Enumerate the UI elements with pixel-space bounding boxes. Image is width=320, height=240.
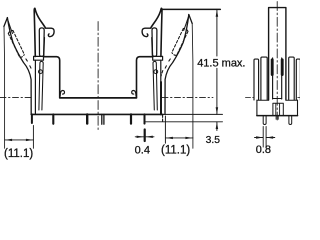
svg-text:(11.1): (11.1) [161, 144, 190, 156]
pin 6 [144, 114, 146, 123]
pin 2 [52, 114, 54, 123]
center notch [273, 103, 283, 115]
center line main view [97, 22, 99, 132]
0.8 dim arrows outside [255, 137, 275, 139]
fork cross bar [273, 98, 282, 100]
phantom lever right (released position) [161, 15, 193, 149]
left inner column [261, 57, 267, 100]
0.4 extension lines [144, 130, 146, 142]
base bottom extension to 3.5 dim [163, 113, 223, 115]
right outer column [296, 59, 300, 100]
pin 3 [86, 114, 88, 123]
end view center line [276, 2, 278, 121]
pin 1 [31, 114, 33, 123]
left lever assembly [34, 8, 65, 114]
41.5 dimension line [216, 9, 218, 114]
phantom left curve to base edge [7, 18, 31, 115]
phantom right inner tip line [184, 18, 189, 31]
end view lever rectangle [269, 8, 286, 100]
svg-text:0.4: 0.4 [135, 145, 150, 157]
hidden pin dashed [162, 115, 164, 121]
mid (11.1) dim line [165, 137, 193, 139]
right wall darkening [160, 82, 162, 114]
base bottom line [31, 113, 163, 115]
end view pin left [263, 116, 266, 125]
phantom left dashed slot [8, 30, 32, 69]
phantom lever left (released position) [4, 18, 32, 149]
phantom right edge / dim extension line [191, 24, 194, 149]
center stub [276, 116, 278, 120]
41.5 max top extension line [161, 8, 220, 10]
svg-text:41.5 max.: 41.5 max. [197, 57, 245, 69]
inner fork lines [273, 58, 282, 99]
left (11.1) dim line [5, 139, 34, 141]
phantom right curve to base edge [165, 15, 189, 115]
fork bump right [281, 60, 284, 75]
svg-text:3.5: 3.5 [206, 135, 221, 146]
dip floor between pedestals [60, 97, 137, 99]
end view horizontal dash line [246, 97, 301, 99]
0.8 extension lines [263, 127, 266, 148]
phantom right tip edge [189, 15, 192, 24]
end view base [257, 100, 298, 115]
right inner column [289, 57, 295, 100]
svg-text:(11.1): (11.1) [4, 148, 33, 160]
horizontal dash line right [162, 96, 213, 98]
end view pin right [289, 116, 292, 125]
phantom left edge / dim extension line [3, 27, 6, 149]
horizontal dash line left [0, 96, 32, 98]
pin 5 [130, 114, 132, 123]
svg-text:0.8: 0.8 [256, 144, 271, 156]
0.4 dim arrows outside [135, 136, 154, 138]
pin 4 [102, 114, 104, 124]
3.5 tail and up arrow [216, 122, 218, 131]
phantom left tip edge [4, 18, 8, 27]
right lever assembly (mirrored) [132, 8, 163, 114]
left (11.1) extension lines [32, 126, 34, 149]
arrow down [216, 107, 219, 114]
left outer column [254, 59, 259, 100]
arrow up [216, 10, 219, 17]
3.5 lower extension line [146, 121, 223, 123]
phantom right dash near pivot [161, 71, 163, 77]
mid (11.1) extension line [164, 116, 166, 143]
phantom left inner tip line [8, 21, 13, 34]
phantom right dashed slot [164, 28, 188, 69]
fork bump left [271, 60, 274, 75]
